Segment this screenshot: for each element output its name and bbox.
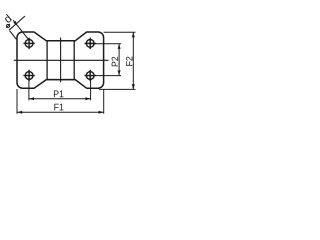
- hole bottom-right: [85, 70, 96, 81]
- P2 extension line top: [90, 43, 121, 45]
- F2 dimension line: [132, 32, 134, 89]
- F2 arrow top: [132, 32, 135, 37]
- center boss rectangle: [47, 41, 74, 80]
- P1 arrow left: [29, 97, 34, 100]
- label P2: [112, 57, 118, 67]
- hole bottom-left: [23, 70, 34, 81]
- hole top-right: [85, 38, 96, 49]
- label d: [3, 14, 12, 24]
- P1 arrow right: [85, 97, 90, 100]
- leader line for hole diameter d: [13, 20, 28, 39]
- label P1: [54, 91, 64, 98]
- F2 arrow bottom: [132, 84, 135, 89]
- P2 extension line bottom: [90, 75, 121, 77]
- F1 extension line right: [103, 89, 105, 114]
- vertical centerline: [60, 38, 62, 83]
- label F2: [126, 57, 132, 66]
- label F1: [54, 104, 63, 111]
- dimension tick line of d callout: [9, 16, 25, 30]
- F2 extension line bottom: [99, 88, 136, 90]
- plate outline: [17, 32, 104, 88]
- P2 dimension line: [118, 44, 120, 76]
- diameter symbol of label: [7, 24, 10, 27]
- F1 extension line left: [16, 89, 18, 114]
- P2 arrow bottom: [118, 70, 121, 75]
- hole top-left: [23, 38, 34, 49]
- arrowhead on leader: [13, 21, 17, 26]
- F1 arrow left: [17, 111, 22, 114]
- second tangent tick line: [10, 31, 17, 40]
- P1 dimension line: [29, 98, 91, 100]
- F1 dimension line: [17, 111, 104, 113]
- F2 extension line top: [104, 31, 136, 33]
- P2 arrow top: [118, 44, 121, 49]
- horizontal centerline: [14, 59, 109, 61]
- F1 arrow right: [99, 111, 104, 114]
- P1 extension line left: [28, 77, 30, 101]
- P1 extension line right: [90, 77, 92, 101]
